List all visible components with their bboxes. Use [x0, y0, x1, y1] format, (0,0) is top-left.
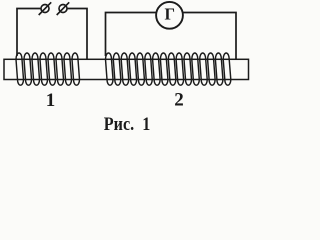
terminal XP2 (slashed circle) — [57, 2, 69, 15]
coil 1 (primary winding, 8 turns) — [16, 53, 80, 85]
core bar (iron rod) — [4, 59, 249, 79]
terminal XP1 (slashed circle) — [39, 2, 52, 15]
wire: galvanometer to right side of right loop — [183, 13, 236, 60]
galvanometer G (circle with letter) — [156, 2, 183, 29]
wire: coil 2 up-left to galvanometer — [106, 13, 157, 57]
wire: left loop top conductor — [17, 9, 41, 57]
svg-text:1: 1 — [46, 90, 56, 111]
wire: terminal XP2 to right side of left loop — [67, 9, 87, 60]
svg-text:2: 2 — [174, 89, 184, 110]
svg-text:Г: Г — [164, 5, 175, 24]
svg-text:Рис. 1: Рис. 1 — [104, 113, 151, 135]
coil 2 (secondary winding, 16 turns) — [106, 53, 231, 85]
